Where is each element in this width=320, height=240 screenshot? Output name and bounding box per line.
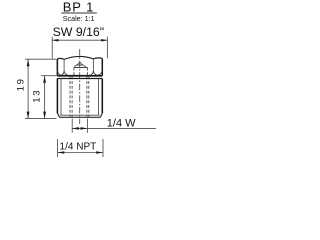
hidden cone shoulder left xyxy=(74,65,76,67)
dim 13 arrow top xyxy=(43,76,46,83)
hidden hole top line xyxy=(74,67,88,69)
hidden thread major line left xyxy=(69,76,71,117)
dim 13 line xyxy=(44,76,46,119)
body thread crest left xyxy=(56,79,58,114)
svg-text:1/4 NPT: 1/4 NPT xyxy=(60,142,97,153)
bottom face line xyxy=(59,116,100,118)
hex face line right xyxy=(92,59,94,71)
hex top chamfer arcs xyxy=(57,56,102,59)
dim 13 arrow bottom xyxy=(43,112,46,119)
hidden cone shoulder right xyxy=(84,65,86,67)
SW extension line right xyxy=(106,37,108,59)
hex head side right (flush with body) xyxy=(101,59,103,76)
dim 1/4 W extension line right xyxy=(86,119,88,133)
hidden thread minor line left xyxy=(71,76,73,117)
hidden hole wall left (hex) xyxy=(73,68,75,77)
svg-text:13: 13 xyxy=(31,89,42,103)
body thread root right xyxy=(98,79,100,116)
dim 1/4 W arrow left xyxy=(72,127,79,130)
dim 19 arrow top xyxy=(27,59,30,66)
dim 19 extension line top xyxy=(25,58,56,60)
dim 1/4 W arrow right xyxy=(81,127,88,130)
hex bottom chamfer arc center face xyxy=(64,71,93,76)
title underline xyxy=(61,12,97,14)
dim 1/4 NPT arrow left xyxy=(58,151,65,154)
body top line xyxy=(57,78,102,80)
dim 1/4 NPT arrow right xyxy=(96,151,103,154)
svg-text:Scale: 1:1: Scale: 1:1 xyxy=(63,14,95,23)
svg-text:1/4 W: 1/4 W xyxy=(107,118,136,130)
dim 19 line xyxy=(27,59,29,118)
dim 1/4 NPT extension line right xyxy=(102,139,104,157)
dim 19 extension line bottom xyxy=(25,118,57,120)
hidden thread minor line right xyxy=(86,76,88,117)
hidden cone tip xyxy=(77,62,82,65)
hex head side left (flush with body) xyxy=(56,59,58,76)
SW extension line left xyxy=(51,37,53,59)
SW arrow right xyxy=(101,39,107,42)
svg-text:19: 19 xyxy=(15,77,26,91)
hex bottom line xyxy=(57,75,102,77)
dim 1/4 W extension line left xyxy=(71,119,73,133)
centerline xyxy=(79,49,81,124)
SW dimension line xyxy=(52,39,107,41)
hidden cone base line xyxy=(76,64,84,66)
bottom chamfer ring line xyxy=(60,114,99,116)
dim 1/4 NPT extension line left xyxy=(57,139,59,157)
dim 19 arrow bottom xyxy=(27,112,30,119)
hex bottom chamfer arc right face xyxy=(93,70,102,75)
hex bottom chamfer arc left face xyxy=(58,70,65,75)
bottom chamfer diagonal right xyxy=(100,113,102,117)
SW arrow left xyxy=(52,39,58,42)
body thread crest right xyxy=(101,79,103,114)
body thread root left xyxy=(60,79,62,116)
hidden thread major line right xyxy=(88,76,90,117)
hidden hole wall right (hex) xyxy=(87,68,89,77)
svg-text:BP 1: BP 1 xyxy=(63,0,95,15)
bottom chamfer diagonal left xyxy=(57,113,59,117)
hex face line left xyxy=(63,60,65,71)
dim 1/4 W line and leader shelf xyxy=(72,127,156,129)
dim 13 extension line top xyxy=(41,75,57,77)
svg-text:SW 9/16": SW 9/16" xyxy=(53,25,105,39)
dim 1/4 NPT line xyxy=(58,152,104,154)
